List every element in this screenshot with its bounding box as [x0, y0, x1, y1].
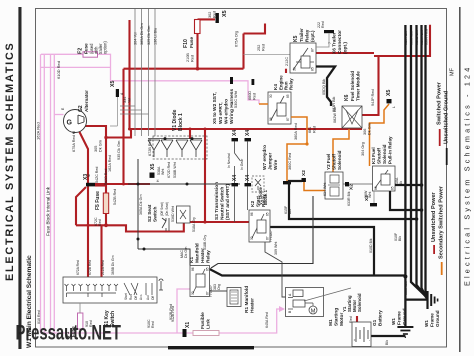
- svg-text:X5: X5: [222, 10, 228, 17]
- wire label 645A Red: [265, 312, 269, 328]
- svg-text:Fuse Block Internal Link: Fuse Block Internal Link: [46, 186, 51, 236]
- svg-text:(opt.): (opt.): [343, 42, 349, 54]
- wire pink to fuse F2: [41, 53, 83, 55]
- wire label 162A Red (left): [36, 122, 41, 140]
- wire ground bus 050A Blk: [411, 25, 426, 296]
- svg-text:(Off Seat): (Off Seat): [160, 202, 164, 216]
- svg-text:94JP Red: 94JP Red: [371, 89, 375, 106]
- wire label 910C Red 2: [147, 319, 155, 328]
- wire label 633R Blk: [347, 191, 351, 206]
- svg-text:Alternator: Alternator: [84, 90, 89, 112]
- module K6 label: [344, 71, 361, 101]
- svg-text:7: 7: [328, 42, 332, 44]
- svg-text:Wiring Harness: Wiring Harness: [229, 89, 235, 124]
- connector X6 bar: [316, 30, 334, 47]
- title W1 Main Electrical Schematic: [26, 255, 33, 348]
- svg-text:Jumper: Jumper: [268, 153, 274, 170]
- fuse F10 label: [183, 36, 195, 48]
- wire label 518A Gry: [192, 217, 196, 232]
- svg-text:In Gear: In Gear: [240, 158, 244, 170]
- wire 325 Dk Grn vertical: [148, 9, 150, 136]
- wire label 912B Red: [171, 306, 175, 322]
- thin gray vertical long: [211, 196, 313, 268]
- svg-text:MF: MF: [450, 67, 456, 76]
- svg-text:Org: Org: [217, 284, 221, 290]
- starting motor M1 box: [286, 288, 324, 317]
- wire black from K3: [390, 191, 422, 210]
- switch S2 state labels: [160, 202, 169, 216]
- wire pink link vertical 4: [53, 54, 55, 333]
- diode block 2 label: [258, 186, 268, 205]
- svg-text:136 Lt Blu: 136 Lt Blu: [154, 28, 158, 45]
- starting motor M1 label: [328, 308, 345, 326]
- wire pink to alternator E: [54, 114, 63, 116]
- svg-text:Run: Run: [129, 294, 133, 300]
- relay K1 label: [189, 243, 212, 263]
- ground symbol W1 (battery): [397, 327, 413, 337]
- svg-text:Blk: Blk: [385, 340, 389, 345]
- wire label 010 Red: [37, 310, 41, 324]
- svg-text:306: 306: [363, 129, 367, 135]
- svg-text:K4: K4: [273, 84, 278, 90]
- svg-text:518A Gry: 518A Gry: [192, 217, 196, 232]
- wire red S1 feed 2: [100, 225, 102, 282]
- svg-text:Frame: Frame: [397, 311, 402, 325]
- svg-text:Yel: Yel: [128, 98, 132, 103]
- wire label 083R Blk: [332, 96, 336, 112]
- wire ground bus 050V Blk: [426, 25, 428, 299]
- label Fuse Block Internal Link: [46, 186, 51, 236]
- svg-text:Battery: Battery: [378, 310, 383, 326]
- connector X6 label: [332, 30, 349, 54]
- svg-text:X6 Trailer: X6 Trailer: [332, 32, 338, 54]
- svg-text:675A Org: 675A Org: [235, 31, 239, 47]
- switch S2 contacts: [162, 218, 169, 231]
- wire label 661 Red: [308, 126, 317, 133]
- svg-text:Red: Red: [151, 321, 155, 328]
- key symbol: [159, 279, 163, 290]
- svg-text:Relay: Relay: [206, 250, 212, 263]
- svg-text:Dk Grn: Dk Grn: [99, 140, 103, 152]
- svg-text:365A Dk Grn: 365A Dk Grn: [139, 194, 143, 215]
- connector tick on pink bus 2: [252, 79, 255, 85]
- wire label 162A Red mid: [108, 155, 112, 172]
- connector X5 (top, at F10): [216, 10, 229, 23]
- svg-text:Off: Off: [134, 296, 138, 300]
- svg-text:Start: Start: [124, 293, 128, 300]
- wire label 94JP Red: [371, 89, 375, 106]
- svg-text:536D Wht: 536D Wht: [171, 206, 175, 222]
- svg-text:Neutral Switch: Neutral Switch: [220, 187, 226, 220]
- svg-text:360A Red: 360A Red: [294, 123, 298, 140]
- switch neutral-gear: [235, 142, 248, 184]
- svg-text:Dk Grn: Dk Grn: [184, 247, 188, 258]
- wire black battery to ground: [371, 335, 405, 337]
- svg-text:Solenoid: Solenoid: [357, 293, 362, 312]
- wire label 672C Red: [94, 217, 102, 226]
- wire orange K4 coil feed: [259, 103, 268, 105]
- connector X3: [83, 174, 95, 187]
- wire ground bus 010D Blk: [417, 25, 427, 297]
- solenoid Y2 label: [326, 150, 342, 170]
- svg-text:050V Red: 050V Red: [425, 29, 429, 45]
- thin wire K2 to M1 A: [265, 242, 286, 297]
- svg-text:86: 86: [191, 267, 195, 271]
- wire label 54ZC Red: [95, 167, 99, 183]
- svg-text:30: 30: [191, 291, 195, 295]
- svg-text:85: 85: [266, 212, 270, 216]
- svg-text:Secondary Switched Power: Secondary Switched Power: [439, 185, 445, 259]
- svg-text:+: +: [353, 339, 357, 341]
- wire label 360C Red: [288, 153, 292, 170]
- thick black feeds into ground bus: [210, 181, 428, 336]
- module K6 box: [342, 106, 362, 128]
- wire label 675A Org: [235, 31, 239, 47]
- wire label 210B Red: [186, 53, 195, 62]
- ground W1 label (right): [424, 310, 440, 327]
- red junction dots: [87, 67, 207, 227]
- heater R1 connector: [210, 288, 242, 307]
- wire label 365A Dk Grn: [139, 194, 143, 215]
- svg-text:Frame: Frame: [430, 313, 435, 327]
- svg-text:S3 Transmission: S3 Transmission: [214, 182, 220, 220]
- svg-text:30: 30: [269, 94, 273, 98]
- svg-text:R1 Manifold: R1 Manifold: [244, 286, 250, 313]
- wire label Blk (battery): [385, 340, 389, 345]
- wire red K5 coil stub: [285, 69, 287, 73]
- connector X2 (Y2 right): [345, 182, 355, 190]
- svg-text:162A Red: 162A Red: [108, 155, 112, 172]
- svg-text:060A Blk: 060A Blk: [404, 281, 408, 295]
- wire pink from fuse F2 step down: [98, 54, 111, 81]
- svg-text:Shutoff: Shutoff: [332, 153, 337, 170]
- svg-text:Relay: Relay: [305, 29, 310, 42]
- wire red X5 branch at y=184: [88, 183, 150, 185]
- wire red bus-3 to K2: [184, 221, 249, 223]
- svg-text:L: L: [392, 106, 396, 108]
- svg-text:Ground: Ground: [402, 308, 407, 325]
- wire label 05DQ Blk: [322, 79, 326, 95]
- wire red K6 right drop: [362, 56, 379, 115]
- orange wire K4 output: [259, 104, 307, 181]
- svg-text:675A Red Kl: 675A Red Kl: [72, 131, 76, 152]
- svg-text:Wht: Wht: [161, 169, 165, 175]
- label X5 to W2 harness: [212, 89, 235, 124]
- svg-text:212C: 212C: [285, 57, 289, 66]
- svg-text:672D Red: 672D Red: [167, 162, 171, 178]
- wire orange X2 to Y2: [304, 182, 325, 191]
- svg-text:Connector: Connector: [337, 30, 343, 54]
- solenoid Y1 label: [342, 293, 362, 312]
- svg-text:Shutoff: Shutoff: [377, 147, 382, 164]
- label W7 eHydro Jumper Wire: [262, 145, 279, 170]
- wire red F5 lower stub: [105, 214, 107, 226]
- svg-text:Red: Red: [191, 55, 195, 62]
- svg-text:G1: G1: [372, 319, 377, 326]
- svg-text:(opt.): (opt.): [310, 30, 315, 42]
- wire ground bus 010T Blk: [404, 25, 406, 327]
- wire label MAC Dk Grn: [180, 247, 188, 258]
- wire label 136 Lt Blu: [154, 28, 158, 45]
- svg-text:Heater: Heater: [200, 248, 206, 263]
- svg-text:Starting: Starting: [334, 308, 340, 326]
- wire orange K4 87 to W7 jumper: [287, 117, 307, 181]
- switch S3 label: [214, 182, 231, 220]
- wire label 010F Blk: [394, 232, 402, 241]
- leader line Y1: [304, 288, 351, 301]
- svg-text:X5: X5: [150, 164, 156, 170]
- wire stub to X5 a: [120, 105, 135, 107]
- wire pink upper link: [41, 66, 111, 68]
- svg-text:86: 86: [250, 212, 254, 216]
- wire red K5 drop: [242, 34, 244, 69]
- svg-text:162A Red: 162A Red: [36, 122, 41, 140]
- relay K4 box: [268, 92, 291, 124]
- svg-text:Fuse: Fuse: [84, 43, 89, 54]
- wire pink F1 stub: [79, 329, 81, 334]
- relay K1 box: [190, 266, 213, 298]
- svg-text:M: M: [87, 174, 91, 177]
- svg-text:Red: Red: [321, 21, 325, 28]
- svg-text:302: 302: [208, 12, 212, 18]
- heater R1 label: [244, 286, 256, 313]
- wire label 010D Blk (bottom): [369, 238, 373, 253]
- svg-text:Blk: Blk: [398, 236, 402, 241]
- wire label 302 Red: [208, 11, 217, 18]
- svg-text:334: 334: [123, 97, 127, 103]
- key switch S1 label: [104, 310, 116, 327]
- wire red F10 top to X5: [198, 18, 216, 20]
- svg-text:X4: X4: [245, 175, 251, 181]
- wire pink link vertical 1: [40, 54, 42, 333]
- wire pink bottom bus to M1 B: [41, 309, 284, 333]
- relay K2 box: [249, 210, 273, 242]
- wire label 252 Red: [244, 44, 291, 54]
- svg-text:645A Red: 645A Red: [265, 312, 269, 328]
- svg-text:W1: W1: [391, 318, 396, 325]
- svg-text:360C Red: 360C Red: [288, 153, 292, 170]
- svg-text:Fusible: Fusible: [200, 312, 206, 329]
- diode block V1 box (dashed): [153, 136, 207, 159]
- svg-text:Aul: Aul: [146, 295, 150, 300]
- svg-text:518B Gry: 518B Gry: [203, 235, 207, 250]
- thin sensor lines to diode block: [120, 9, 155, 136]
- svg-text:05DQ Blk: 05DQ Blk: [322, 79, 326, 95]
- svg-text:Y2 Fuel: Y2 Fuel: [326, 154, 331, 170]
- bottom thick border segment: [168, 346, 254, 349]
- svg-text:010D Blk: 010D Blk: [369, 238, 373, 253]
- svg-text:X4: X4: [232, 175, 238, 181]
- ground bus labels: [404, 29, 429, 45]
- battery G1 label: [372, 310, 383, 326]
- svg-text:212A Red: 212A Red: [101, 260, 105, 275]
- relay K4 label: [273, 75, 294, 90]
- wire label 562D Red: [104, 169, 108, 185]
- wire red K5 top link: [244, 24, 266, 34]
- svg-text:Red: Red: [349, 316, 353, 323]
- legend Switched Power (red): [437, 81, 443, 146]
- wire label 910C Red: [85, 320, 93, 327]
- relay K3 label: [371, 136, 393, 164]
- wire label 304 Org: [361, 142, 365, 156]
- svg-text:Unswitched Ground: Unswitched Ground: [444, 90, 450, 144]
- orange junction dot: [305, 142, 308, 145]
- svg-text:-: -: [367, 340, 371, 341]
- svg-text:K2: K2: [250, 201, 256, 207]
- wire red alternator B+ link: [82, 126, 106, 193]
- wire label 304 Yel: [134, 32, 138, 45]
- wire label 935 Dk Grn: [117, 141, 121, 160]
- svg-text:Block 1: Block 1: [178, 113, 184, 131]
- wire red bus-1 drop to y=184: [122, 69, 124, 184]
- thin line X4 to K2 region: [235, 186, 248, 222]
- fusible link body: [193, 331, 219, 336]
- relay K5 box: [290, 43, 316, 73]
- wire label 306 Dk Grn: [363, 123, 372, 135]
- wire red X3 branch: [95, 184, 106, 186]
- svg-text:F10: F10: [183, 39, 189, 48]
- svg-text:Timer Module: Timer Module: [356, 71, 361, 101]
- wire red K5 to right bus: [316, 52, 374, 54]
- key switch terminal labels: [76, 255, 115, 275]
- wire label 675A Red K1: [72, 131, 76, 152]
- fuse F2 label: [78, 41, 108, 54]
- switch neutral labels: [227, 153, 244, 170]
- junction dots S2 line: [137, 183, 189, 251]
- svg-text:Wire: Wire: [273, 159, 279, 170]
- wire 304 Yel vertical: [134, 9, 136, 136]
- svg-text:Solenoid: Solenoid: [382, 144, 387, 164]
- wire red bus-2: [76, 218, 184, 232]
- battery G1 box: [352, 322, 371, 347]
- wire label 325 Dk Grn: [147, 26, 151, 45]
- connector X5 (right): [386, 90, 396, 108]
- svg-text:Acc.: Acc.: [139, 294, 143, 300]
- wire red battery stub: [356, 316, 358, 322]
- switch S2 label: [147, 204, 159, 222]
- alternator G2: [61, 107, 87, 133]
- svg-text:85: 85: [391, 186, 395, 190]
- key switch S1 contact strokes: [67, 283, 153, 297]
- diode block V1 diodes: [148, 139, 202, 157]
- wire red long vertical top-left: [128, 20, 130, 129]
- wire 136 Lt Blu vertical: [154, 9, 156, 136]
- svg-text:Dk Grn: Dk Grn: [368, 123, 372, 135]
- wire pink bus to K4 coil: [111, 81, 260, 104]
- svg-text:ELECTRICAL SYSTEM SCHEMATICS: ELECTRICAL SYSTEM SCHEMATICS: [4, 41, 16, 281]
- fuse block internal link pink wires: [41, 54, 284, 334]
- svg-text:Trailer: Trailer: [299, 28, 304, 42]
- wire Y2 to K3: [343, 183, 373, 185]
- svg-text:In Neutral: In Neutral: [227, 153, 231, 168]
- fuse F5 label: [95, 191, 101, 210]
- svg-text:Motor: Motor: [339, 313, 345, 326]
- relay K2 label: [250, 194, 267, 207]
- watermark Pressauto.NET: [16, 322, 122, 345]
- diode block 2 (small): [252, 176, 264, 192]
- wire label 222 Red: [317, 21, 325, 28]
- page label MF: [450, 67, 456, 76]
- legend Unswitched Power (red): [431, 191, 437, 254]
- svg-text:X1: X1: [185, 322, 191, 328]
- svg-text:562O Red: 562O Red: [104, 169, 108, 185]
- wire 385A Dk Grn vertical: [141, 9, 143, 136]
- svg-text:660D: 660D: [248, 91, 252, 100]
- pink arrow into M1 B terminal: [279, 306, 285, 312]
- svg-text:672B Red: 672B Red: [88, 260, 92, 275]
- svg-text:85: 85: [286, 94, 290, 98]
- relay K5 label: [293, 28, 315, 42]
- svg-text:633R Blk: 633R Blk: [347, 191, 351, 206]
- connector tick on pink bus 1: [230, 77, 233, 84]
- legend Secondary Switched Power (orange): [439, 185, 445, 275]
- connector X5 (mid 672B): [150, 164, 161, 182]
- svg-text:(On Seat): (On Seat): [165, 202, 169, 216]
- solenoid Y2 box: [325, 172, 343, 199]
- svg-text:30: 30: [250, 236, 254, 240]
- svg-text:S2 Seat: S2 Seat: [147, 204, 153, 222]
- wire red mid bus: [106, 129, 362, 138]
- fuse F5 body: [103, 193, 108, 214]
- fuse F2 body: [83, 52, 98, 57]
- wire label 672D Red: [167, 162, 171, 178]
- svg-text:325 Dk Grn: 325 Dk Grn: [147, 26, 151, 45]
- svg-text:365B Dk Grn: 365B Dk Grn: [111, 255, 115, 275]
- svg-text:Switch: Switch: [153, 206, 159, 222]
- wire label 54ZB Red: [113, 189, 117, 205]
- wire label 212C Red: [285, 57, 294, 66]
- svg-text:610D Red: 610D Red: [56, 61, 61, 79]
- fuse F1 label: [65, 326, 76, 337]
- svg-text:Electrical System Schematics -: Electrical System Schematics - 124: [463, 65, 472, 286]
- svg-text:Wht: Wht: [368, 192, 372, 198]
- svg-text:M1: M1: [328, 319, 334, 326]
- right page edge line: [459, 7, 461, 352]
- wire label 672B Red: [148, 139, 152, 156]
- connector X1: [183, 322, 192, 337]
- svg-text:050A Blk: 050A Blk: [410, 31, 414, 45]
- svg-text:X4: X4: [245, 130, 251, 136]
- wire label 518B Gry: [203, 235, 207, 250]
- svg-text:X2: X2: [301, 170, 307, 176]
- svg-text:538B Wht: 538B Wht: [173, 162, 177, 178]
- wire red K6 feed right: [374, 25, 430, 56]
- black junction dots: [403, 183, 423, 278]
- svg-text:304 Yel: 304 Yel: [134, 32, 138, 45]
- connector X4 pair lower: [232, 175, 239, 187]
- wire red X3 left leg: [76, 187, 86, 225]
- svg-text:option): option): [103, 41, 108, 54]
- wire label 360A Red: [294, 123, 298, 140]
- svg-text:912B Red: 912B Red: [169, 304, 173, 320]
- connector X4 pair upper 2: [245, 130, 252, 142]
- svg-text:W1: W1: [424, 320, 429, 327]
- wire black K2 upper: [289, 181, 417, 219]
- right page title Electrical System Schematics - 124: [463, 65, 472, 286]
- orange wire X5 to K3: [333, 104, 389, 172]
- wire label 536D Wht: [171, 206, 175, 222]
- svg-text:TYC&K7: TYC&K7: [269, 230, 273, 242]
- svg-text:86: 86: [374, 186, 378, 190]
- wire red alternator D+ diagonal: [79, 131, 88, 282]
- svg-text:Pull-in Relay: Pull-in Relay: [388, 136, 393, 164]
- svg-text:30: 30: [293, 67, 297, 71]
- legend Unswitched Ground (black): [444, 90, 450, 165]
- svg-text:W7 eHydro: W7 eHydro: [262, 145, 268, 170]
- diode block junction dots: [164, 137, 194, 140]
- wire label 634 Wht: [323, 183, 327, 196]
- svg-text:661: 661: [308, 127, 312, 133]
